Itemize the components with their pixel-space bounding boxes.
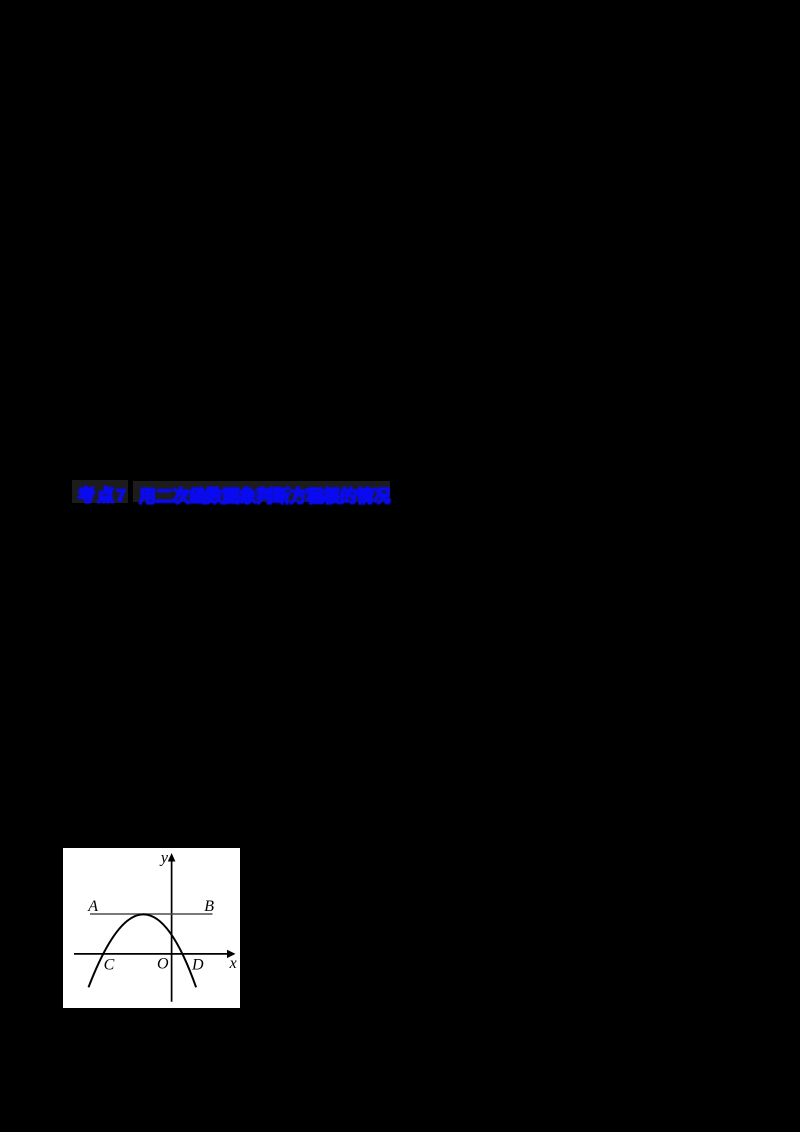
svg-text:x: x [229,955,237,972]
heading title text [139,482,390,507]
svg-text:A: A [87,898,98,915]
y-axis arrowhead [168,853,176,862]
y-axis [171,858,173,1002]
heading text 考点7 [78,481,128,506]
x-axis arrowhead [227,950,236,958]
figure: parabola graph panel [63,848,240,1008]
heading title box [133,481,390,502]
svg-text:B: B [204,898,214,915]
svg-text:C: C [104,957,115,974]
svg-text:y: y [159,849,169,866]
svg-text:O: O [157,956,169,973]
heading badge box 考点7 [72,480,128,503]
svg-text:D: D [191,956,204,973]
x-axis [74,953,229,955]
line AB [90,913,213,915]
parabola [89,914,197,987]
